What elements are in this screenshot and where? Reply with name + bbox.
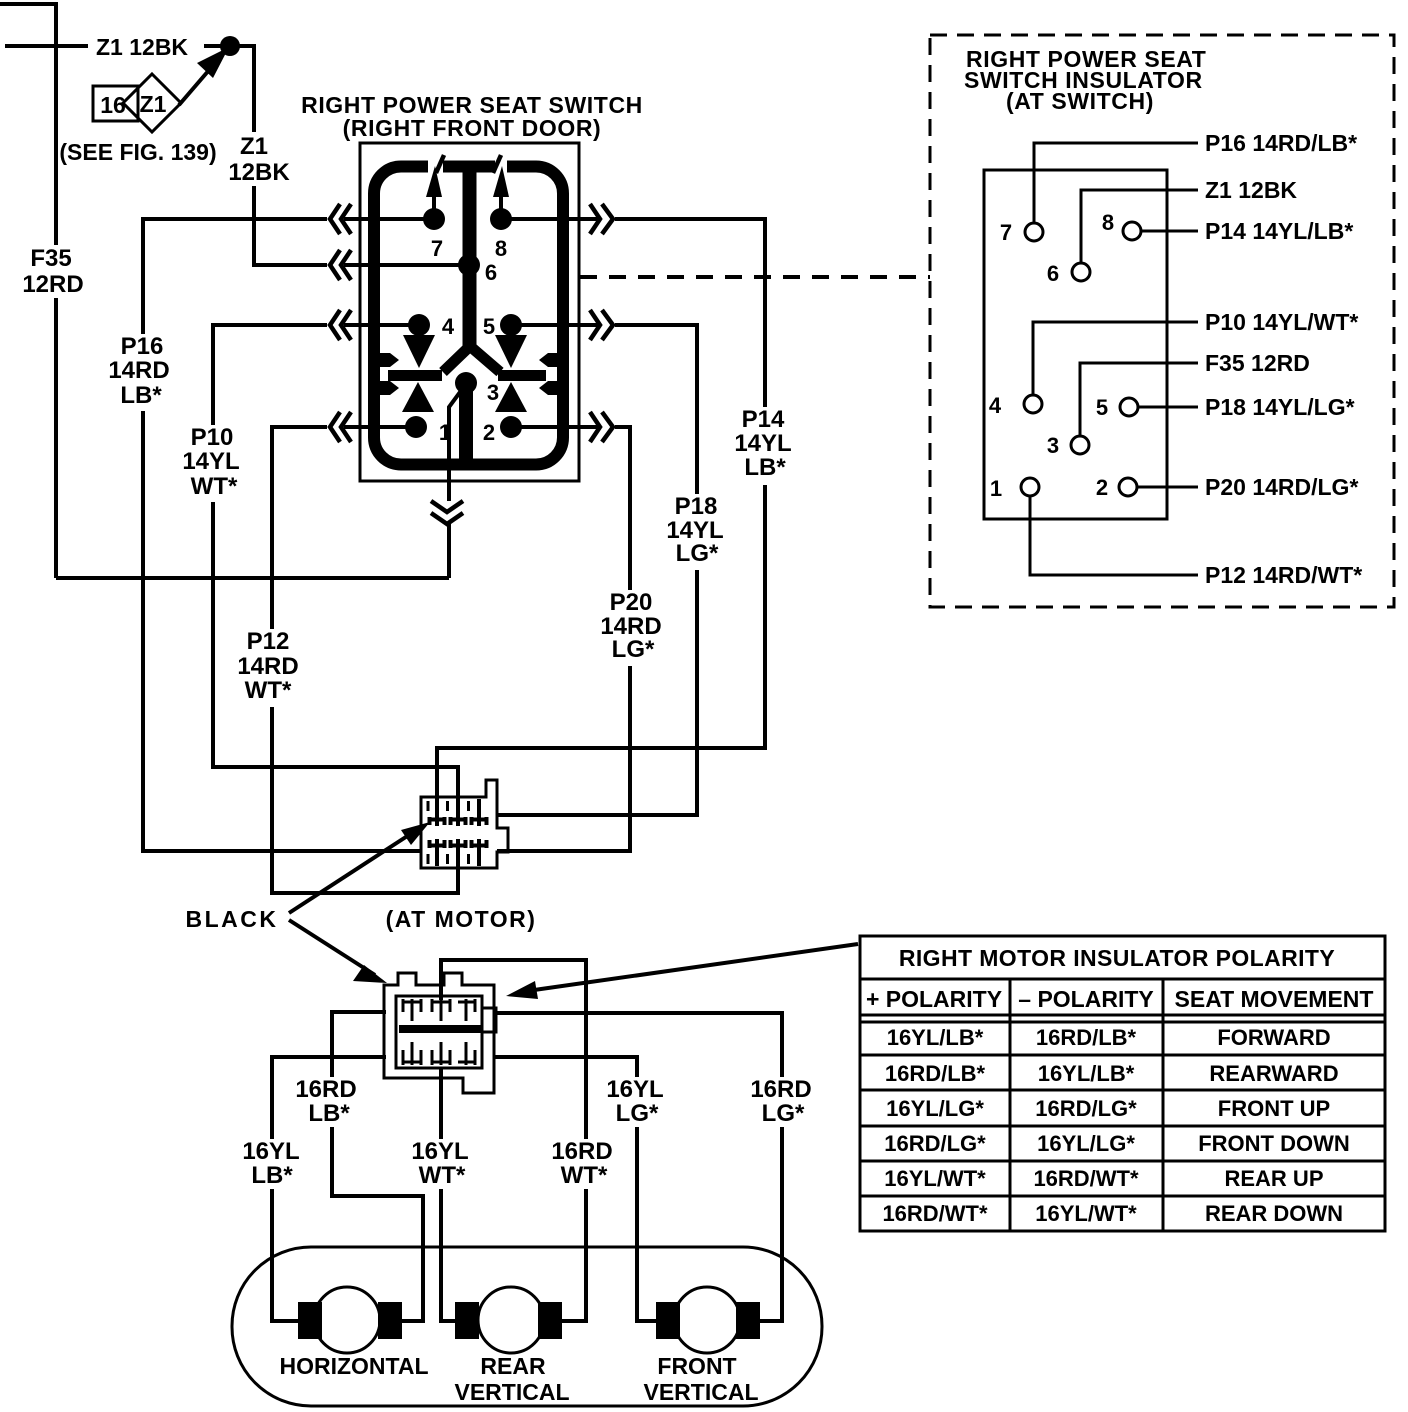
wire feed from page top-left xyxy=(0,2,56,6)
svg-text:Z1 12BK: Z1 12BK xyxy=(96,34,188,60)
table row separators xyxy=(860,1055,1385,1196)
motor M2 rear vertical xyxy=(478,1287,544,1353)
arrow from polarity table to connector C2 xyxy=(520,944,858,992)
table column separators xyxy=(1010,979,1163,1231)
svg-text:2: 2 xyxy=(1096,475,1108,500)
arrow BLACK to connector C1 xyxy=(289,833,412,913)
connector C2 key tab right xyxy=(482,1008,496,1032)
svg-text:16RD/LG*: 16RD/LG* xyxy=(1035,1096,1137,1121)
wiper arc tick right xyxy=(493,155,501,173)
contact pin 3 xyxy=(455,372,477,394)
insulator pin 1 xyxy=(1021,478,1039,496)
svg-text:16YL/LG*: 16YL/LG* xyxy=(1037,1131,1135,1156)
label P20 14RD LG* xyxy=(597,589,664,666)
svg-text:(AT SWITCH): (AT SWITCH) xyxy=(1006,88,1154,114)
svg-text:7: 7 xyxy=(431,236,443,261)
svg-text:FRONT UP: FRONT UP xyxy=(1218,1096,1330,1121)
wire from pin 8 to P14 label xyxy=(1140,230,1198,233)
svg-text:16RD/LG*: 16RD/LG* xyxy=(884,1131,986,1156)
dashed link from switch to insulator detail box xyxy=(580,275,930,279)
svg-text:VERTICAL: VERTICAL xyxy=(644,1379,759,1405)
table title separator xyxy=(860,978,1385,981)
wire from pin 3 to F35 label xyxy=(1080,363,1198,437)
ring gaps for wiper arrows xyxy=(428,155,443,174)
svg-text:8: 8 xyxy=(495,236,507,261)
conductor Y branch xyxy=(443,347,500,372)
svg-text:(AT MOTOR): (AT MOTOR) xyxy=(386,906,537,932)
svg-text:14RD: 14RD xyxy=(108,357,169,384)
svg-text:2: 2 xyxy=(483,420,495,445)
svg-text:SEAT MOVEMENT: SEAT MOVEMENT xyxy=(1175,986,1374,1012)
svg-text:P16 14RD/LB*: P16 14RD/LB* xyxy=(1205,130,1357,156)
svg-text:16RD: 16RD xyxy=(750,1076,811,1103)
junction Z1 splice dot xyxy=(220,36,240,56)
svg-text:BLACK: BLACK xyxy=(186,906,279,932)
svg-text:LB*: LB* xyxy=(120,382,162,409)
label 16RD WT* xyxy=(551,1138,617,1189)
fixed contact teeth left xyxy=(374,353,399,367)
motor assembly enclosure xyxy=(232,1247,822,1406)
svg-text:FRONT: FRONT xyxy=(657,1353,736,1379)
switch S1 contact ring (thick rounded conductor) xyxy=(374,167,563,465)
label Z1 12BK (top) xyxy=(88,29,204,63)
wiper arc tick left xyxy=(436,155,444,173)
connector C2 pin slots upper row xyxy=(403,999,475,1021)
svg-text:16RD/WT*: 16RD/WT* xyxy=(882,1201,988,1226)
svg-text:RIGHT MOTOR INSULATOR POLARITY: RIGHT MOTOR INSULATOR POLARITY xyxy=(899,945,1335,971)
svg-text:– POLARITY: – POLARITY xyxy=(1018,986,1153,1012)
connector C1 (switch side, at motor) outline xyxy=(421,780,508,868)
label P16 14RD LB* xyxy=(107,333,175,411)
svg-text:+ POLARITY: + POLARITY xyxy=(866,986,1002,1012)
wire inside switch row 2 xyxy=(344,263,469,267)
contact pin 8 xyxy=(490,208,512,230)
connector C1 pin slots bottom row xyxy=(428,839,487,866)
svg-text:16RD: 16RD xyxy=(295,1076,356,1103)
svg-text:14YL: 14YL xyxy=(734,430,791,457)
wire F35 12RD vertical run xyxy=(54,2,58,578)
contact pin 1 xyxy=(405,416,427,438)
label P10 14YL WT* xyxy=(182,424,244,502)
svg-text:(SEE FIG. 139): (SEE FIG. 139) xyxy=(59,139,216,165)
svg-text:FRONT DOWN: FRONT DOWN xyxy=(1198,1131,1350,1156)
connector chevrons right (wire exits) xyxy=(590,204,613,442)
svg-text:P18 14YL/LG*: P18 14YL/LG* xyxy=(1205,394,1355,420)
wire from pin 6 to Z1 label xyxy=(1081,190,1198,264)
svg-text:16RD/WT*: 16RD/WT* xyxy=(1033,1166,1139,1191)
insulator pin 3 xyxy=(1071,436,1089,454)
svg-text:VERTICAL: VERTICAL xyxy=(455,1379,570,1405)
svg-text:16YL: 16YL xyxy=(242,1138,299,1165)
svg-text:P18: P18 xyxy=(675,493,718,520)
label 16RD LG* xyxy=(750,1076,816,1127)
insulator pin 2 xyxy=(1119,478,1137,496)
svg-text:REARWARD: REARWARD xyxy=(1209,1061,1338,1086)
contact pin 5 xyxy=(500,314,522,336)
svg-text:LB*: LB* xyxy=(744,454,786,481)
arrow BLACK to connector C2 xyxy=(289,920,375,975)
wire from pin 5 to P18 label xyxy=(1137,406,1198,409)
connector C1 pin slots top row xyxy=(428,799,487,826)
svg-text:REAR: REAR xyxy=(480,1353,546,1379)
svg-text:1: 1 xyxy=(990,476,1002,501)
svg-text:5: 5 xyxy=(1096,395,1108,420)
label 16RD LB* xyxy=(295,1076,361,1127)
wiper arrow pin 8 xyxy=(499,196,503,210)
svg-text:Z1: Z1 xyxy=(240,133,268,160)
label P14 14YL LB* xyxy=(731,406,796,485)
label 16YL WT* xyxy=(408,1138,472,1189)
conductor bar below pin 3 xyxy=(459,388,473,463)
svg-text:REAR UP: REAR UP xyxy=(1224,1166,1323,1191)
svg-text:WT*: WT* xyxy=(419,1162,466,1189)
wire inside switch row 1 xyxy=(344,217,598,221)
polarity table frame xyxy=(860,936,1385,1231)
wire F35 12RD horizontal to switch pin 3 xyxy=(56,576,449,580)
svg-text:16RD/LB*: 16RD/LB* xyxy=(1036,1025,1137,1050)
svg-text:16YL/WT*: 16YL/WT* xyxy=(884,1166,986,1191)
label P12 14RD WT* xyxy=(236,628,300,707)
svg-text:5: 5 xyxy=(483,314,495,339)
label Z1 12BK (at wire) xyxy=(227,132,291,186)
insulator pin 5 xyxy=(1120,398,1138,416)
svg-text:16: 16 xyxy=(100,92,126,118)
wire P14 14YL/LB from switch pin 8 to motor connector xyxy=(437,219,765,813)
svg-text:P16: P16 xyxy=(121,333,164,360)
wire from pin 1 to P12 label xyxy=(1030,495,1198,575)
svg-text:WT*: WT* xyxy=(561,1162,608,1189)
svg-text:F35: F35 xyxy=(30,245,71,272)
svg-text:LG*: LG* xyxy=(762,1100,805,1127)
svg-text:P20: P20 xyxy=(610,589,653,616)
bowtie contact right xyxy=(495,335,527,368)
wire from pin 4 to P10 label xyxy=(1033,322,1198,396)
conductor center bar xyxy=(463,162,477,352)
svg-text:6: 6 xyxy=(1047,261,1059,286)
svg-text:3: 3 xyxy=(487,380,499,405)
svg-text:16RD: 16RD xyxy=(551,1138,612,1165)
label F35 12RD xyxy=(18,245,84,298)
wire from pin 2 to P20 label xyxy=(1136,486,1198,489)
contact pin 4 xyxy=(408,314,430,336)
svg-text:P14: P14 xyxy=(742,406,785,433)
wire 16YL/WT from connector C2 bottom pin to motor 2 left brush xyxy=(441,1068,455,1321)
svg-text:WT*: WT* xyxy=(245,677,292,704)
insulator pin 8 xyxy=(1123,222,1141,240)
svg-text:FORWARD: FORWARD xyxy=(1217,1025,1330,1050)
svg-text:P12: P12 xyxy=(247,628,290,655)
svg-text:12BK: 12BK xyxy=(228,159,290,186)
wiper arrow pin 7 xyxy=(432,196,436,210)
svg-text:(RIGHT FRONT DOOR): (RIGHT FRONT DOOR) xyxy=(343,115,602,141)
svg-text:HORIZONTAL: HORIZONTAL xyxy=(279,1353,428,1379)
svg-text:14RD: 14RD xyxy=(237,653,298,680)
wire 16YL/LG from connector C2 to motor 3 left brush xyxy=(495,1057,656,1321)
insulator pin 4 xyxy=(1024,395,1042,413)
svg-text:Z1: Z1 xyxy=(140,91,167,117)
wire inside switch row 4 xyxy=(344,425,598,429)
wire inside switch row 3 xyxy=(344,323,598,327)
svg-text:Z1 12BK: Z1 12BK xyxy=(1205,177,1297,203)
svg-text:WT*: WT* xyxy=(191,473,238,500)
connector chevrons left (wire entries) xyxy=(330,204,351,442)
svg-text:16RD/LB*: 16RD/LB* xyxy=(885,1061,986,1086)
svg-text:P10 14YL/WT*: P10 14YL/WT* xyxy=(1205,309,1358,335)
wire Z1 12BK from page left xyxy=(5,44,225,48)
svg-text:LG*: LG* xyxy=(616,1100,659,1127)
svg-text:14YL: 14YL xyxy=(182,448,239,475)
connector chevrons bottom (switch pin3 wire) xyxy=(431,501,463,524)
table header double separator xyxy=(860,1015,1385,1022)
connector C2 center rib xyxy=(399,1025,482,1033)
svg-text:6: 6 xyxy=(485,260,497,285)
label 16YL LG* xyxy=(605,1076,669,1127)
wire Z1 12BK down to switch pin 6 xyxy=(230,46,327,265)
insulator body rectangle xyxy=(984,170,1167,519)
svg-text:LG*: LG* xyxy=(612,636,655,663)
svg-text:4: 4 xyxy=(442,314,455,339)
svg-text:16YL: 16YL xyxy=(606,1076,663,1103)
connector C2 pin slots lower row xyxy=(403,1042,475,1065)
wire from pin 7 to P16 label xyxy=(1034,143,1198,224)
bowtie contact left xyxy=(403,335,435,368)
motor M3 front vertical xyxy=(674,1287,740,1353)
wire 16RD/WT from connector C2 top pin over to motor 2 right brush xyxy=(441,960,586,1321)
wire from pin 3 leaving switch bottom xyxy=(449,384,466,578)
svg-text:P10: P10 xyxy=(191,424,234,451)
wire P12 14RD/WT from switch pin 1 to motor connector xyxy=(272,427,458,893)
wire P10 14YL/WT from switch pin 4 to motor connector xyxy=(213,325,458,813)
svg-text:7: 7 xyxy=(1000,220,1012,245)
svg-text:P12 14RD/WT*: P12 14RD/WT* xyxy=(1205,562,1362,588)
wire 16YL/LB from connector C2 to motor 1 left brush xyxy=(272,1057,386,1321)
motor M1 horizontal xyxy=(314,1287,380,1353)
fixed contact teeth right xyxy=(539,353,564,367)
svg-text:3: 3 xyxy=(1047,433,1059,458)
insulator detail dashed border xyxy=(930,35,1394,607)
svg-text:LB*: LB* xyxy=(251,1162,293,1189)
svg-text:8: 8 xyxy=(1102,210,1114,235)
see-fig reference box 16 xyxy=(93,86,138,121)
svg-text:P14 14YL/LB*: P14 14YL/LB* xyxy=(1205,218,1353,244)
svg-text:4: 4 xyxy=(989,393,1002,418)
svg-text:P20 14RD/LG*: P20 14RD/LG* xyxy=(1205,474,1358,500)
connector C2 inner shell xyxy=(396,996,482,1068)
wire P18 14YL/LG from switch pin 5 to motor connector xyxy=(496,325,697,815)
svg-text:16YL/LG*: 16YL/LG* xyxy=(886,1096,984,1121)
svg-text:REAR DOWN: REAR DOWN xyxy=(1205,1201,1343,1226)
label 16YL LB* xyxy=(240,1138,304,1189)
svg-text:LG*: LG* xyxy=(676,540,719,567)
arrow from diamond to Z1 splice xyxy=(179,55,222,105)
wire 16RD/LG from connector C2 to motor 3 right brush xyxy=(495,1013,782,1321)
contact pin 7 xyxy=(423,208,445,230)
svg-text:F35 12RD: F35 12RD xyxy=(1205,350,1310,376)
label P18 14YL LG* xyxy=(663,493,729,570)
svg-text:16YL/LB*: 16YL/LB* xyxy=(887,1025,984,1050)
svg-text:16YL: 16YL xyxy=(411,1138,468,1165)
insulator pin 6 xyxy=(1072,263,1090,281)
connector C2 (at motor) outline xyxy=(384,973,494,1093)
insulator pin 7 xyxy=(1025,223,1043,241)
see-fig reference diamond Z1 xyxy=(123,74,181,132)
switch S1 outer housing rectangle xyxy=(360,143,579,481)
wire 16RD/LB from connector C2 to motor 1 right brush xyxy=(332,1012,423,1321)
contact pin 2 xyxy=(500,416,522,438)
svg-text:LB*: LB* xyxy=(308,1100,350,1127)
svg-text:16YL/WT*: 16YL/WT* xyxy=(1035,1201,1137,1226)
wire P20 14RD/LG from switch pin 2 to motor connector xyxy=(497,427,630,851)
contact pin 6 xyxy=(458,254,480,276)
svg-text:16YL/LB*: 16YL/LB* xyxy=(1038,1061,1135,1086)
wire P16 14RD/LB from switch pin 7 to motor connector xyxy=(143,219,421,851)
svg-text:12RD: 12RD xyxy=(22,271,83,298)
